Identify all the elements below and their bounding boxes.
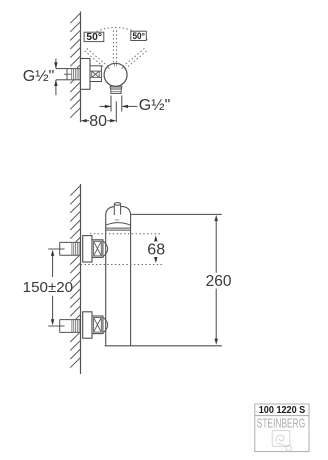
svg-text:STEINBERG: STEINBERG <box>257 416 306 431</box>
svg-text:150±20: 150±20 <box>23 279 73 296</box>
svg-text:100 1220 S: 100 1220 S <box>259 405 306 416</box>
svg-text:50°: 50° <box>132 30 145 41</box>
svg-text:G½": G½" <box>23 68 54 85</box>
svg-text:G½": G½" <box>139 97 170 114</box>
svg-text:50°: 50° <box>86 32 102 43</box>
svg-text:80: 80 <box>89 113 107 130</box>
svg-text:68: 68 <box>147 241 165 258</box>
svg-text:260: 260 <box>206 273 232 290</box>
